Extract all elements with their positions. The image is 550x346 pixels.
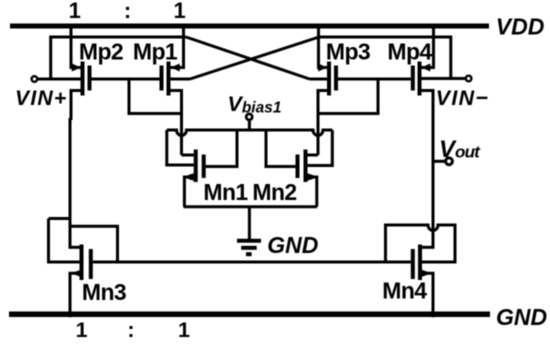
svg-text:1: 1 — [173, 0, 185, 23]
svg-text:Mp1: Mp1 — [133, 38, 178, 64]
svg-text:Mn1: Mn1 — [203, 179, 248, 205]
svg-text:Mp4: Mp4 — [387, 38, 432, 64]
svg-text:VIN+: VIN+ — [15, 87, 68, 110]
svg-text:Mp2: Mp2 — [79, 38, 123, 64]
svg-text:VDD: VDD — [496, 14, 545, 40]
svg-text:VIN−: VIN− — [436, 86, 489, 110]
svg-text:Mn4: Mn4 — [382, 278, 427, 304]
svg-text:1: 1 — [178, 318, 190, 342]
svg-text:1: 1 — [76, 318, 88, 342]
svg-text:GND: GND — [496, 304, 547, 330]
svg-text:1: 1 — [69, 0, 81, 23]
svg-text:Mn2: Mn2 — [252, 179, 296, 205]
svg-text::: : — [124, 0, 131, 23]
svg-text:GND: GND — [267, 232, 318, 258]
svg-text:Mn3: Mn3 — [82, 279, 126, 305]
svg-text:Mp3: Mp3 — [326, 38, 370, 64]
svg-text::: : — [127, 318, 134, 342]
